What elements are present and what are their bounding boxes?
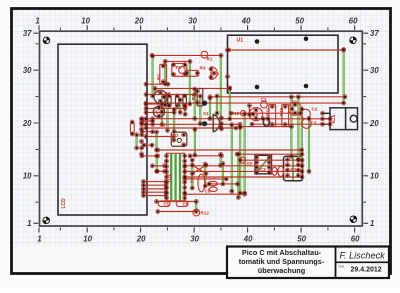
svg-text:C1: C1 [261,97,267,102]
svg-text:IC3: IC3 [259,167,267,172]
svg-text:F. Lischeck: F. Lischeck [340,251,386,261]
svg-text:R12: R12 [201,210,210,215]
svg-text:37: 37 [370,29,379,38]
svg-text:20: 20 [369,119,379,128]
svg-text:IC2: IC2 [167,174,173,182]
svg-text:20: 20 [22,119,32,128]
svg-text:20: 20 [134,17,144,26]
svg-text:Pico C mit Abschaltau-: Pico C mit Abschaltau- [242,248,322,257]
svg-text:R9: R9 [160,123,166,128]
svg-text:C8: C8 [205,189,211,194]
svg-text:R15: R15 [279,107,284,116]
svg-text:50: 50 [295,17,304,26]
svg-text:T2: T2 [292,100,298,105]
svg-text:R2: R2 [157,74,162,80]
svg-text:60: 60 [349,17,358,26]
svg-text:U1: U1 [237,38,244,44]
svg-text:LCD: LCD [61,198,67,209]
svg-text:50: 50 [297,235,306,244]
svg-text:30: 30 [190,235,199,244]
svg-text:37: 37 [23,29,32,38]
svg-text:10: 10 [81,17,90,26]
svg-text:C5: C5 [164,202,170,207]
svg-text:30: 30 [23,66,32,75]
svg-text:T6: T6 [153,110,159,115]
svg-text:tomatik und Spannungs-: tomatik und Spannungs- [239,257,325,266]
svg-text:P1: P1 [176,65,182,70]
svg-text:R3: R3 [200,66,206,71]
svg-text:K1: K1 [291,167,297,172]
svg-text:1: 1 [27,219,31,228]
svg-text:20: 20 [136,235,146,244]
svg-text:29.4.2012: 29.4.2012 [351,267,382,274]
svg-text:C3: C3 [311,121,317,126]
svg-text:S1: S1 [203,111,209,116]
svg-text:LED: LED [245,161,253,166]
svg-text:C7: C7 [210,176,216,181]
svg-text:10: 10 [23,172,32,181]
svg-text:C6: C6 [183,202,189,207]
svg-text:R11: R11 [266,107,271,116]
svg-text:Dat.: Dat. [339,265,346,269]
svg-text:60: 60 [351,235,360,244]
svg-text:10: 10 [83,235,92,244]
svg-text:30: 30 [188,17,197,26]
svg-text:R10: R10 [231,111,240,116]
svg-text:1: 1 [370,219,374,228]
svg-text:30: 30 [370,66,379,75]
svg-text:überwachung: überwachung [258,266,305,275]
svg-text:1: 1 [35,17,39,26]
svg-text:IC1: IC1 [331,115,337,124]
svg-text:R5: R5 [191,94,196,100]
svg-text:P2: P2 [173,133,179,138]
svg-text:40: 40 [243,235,253,244]
svg-text:R4: R4 [165,91,171,96]
svg-text:C2: C2 [312,107,318,112]
svg-text:T4: T4 [154,89,160,94]
svg-text:1: 1 [37,235,41,244]
svg-text:40: 40 [241,17,251,26]
svg-text:D1: D1 [190,177,195,183]
svg-text:R1: R1 [207,57,213,62]
svg-text:10: 10 [370,172,379,181]
svg-text:T5: T5 [253,112,259,117]
svg-text:T3: T3 [214,72,220,77]
